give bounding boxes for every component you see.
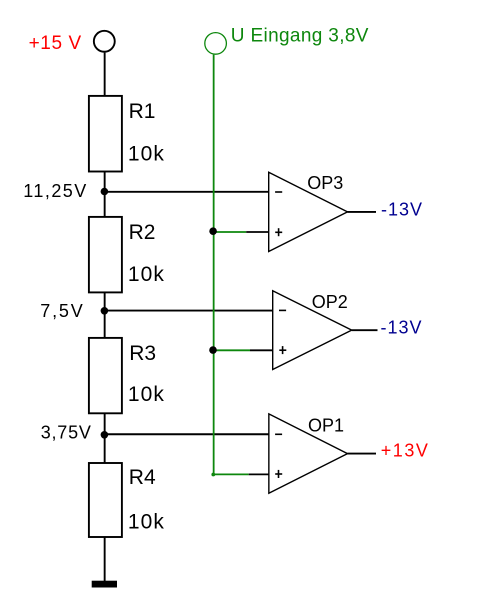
output wire OP2 [352,329,378,331]
op-amp OP3 [269,172,348,251]
wire R3 to R4 [104,413,106,463]
svg-text:7,5V: 7,5V [40,301,84,321]
value label 10k of R4 [128,511,165,534]
OP1 inverting input mark [275,433,282,435]
svg-text:-13V: -13V [381,318,423,338]
svg-text:OP1: OP1 [308,415,344,435]
op-amp OP2 [273,291,352,370]
designator label R4 [129,466,156,489]
svg-text:11,25V: 11,25V [23,181,87,201]
wire node 3,75V to OP1 inverting input [104,433,268,435]
pin stub OP1 noninverting input [249,473,269,475]
wire R2 to R3 [104,292,106,338]
junction node at OP3 noninverting input [209,227,217,235]
OP3 noninverting input mark [275,228,282,236]
label node 3,75V [41,422,92,442]
svg-text:R4: R4 [129,466,156,489]
wire input net to OP2 noninverting input [213,349,250,351]
value label 10k of R1 [128,143,165,166]
value label 10k of R3 [128,383,165,406]
OP2 inverting input mark [279,309,286,311]
OP2 noninverting input mark [279,346,286,354]
wire from +15V terminal to R1 [104,53,106,96]
wire node 11,25V to OP3 inverting input [104,191,268,193]
ground [92,581,117,588]
designator label R3 [129,342,156,365]
output wire OP3 [348,211,377,213]
value label 10k of R2 [128,263,165,286]
wire input net vertical [213,55,215,475]
label node 11,25V [23,181,87,201]
label +13V output OP1 [381,441,430,461]
resistor R4 [89,463,122,537]
junction node at OP2 noninverting input [209,346,217,354]
label -13V output OP2 [381,318,423,338]
terminal U Eingang [205,33,227,55]
resistor R2 [89,217,122,293]
wire R4 to ground [104,537,106,582]
svg-text:R1: R1 [129,100,156,123]
svg-text:10k: 10k [128,511,165,534]
svg-text:OP3: OP3 [307,173,343,193]
wire input net elbow to OP1 noninverting input [211,473,248,477]
resistor R3 [89,338,122,413]
junction node 3,75V [101,431,109,439]
OP3 inverting input mark [275,191,282,193]
pin stub OP3 noninverting input [246,231,269,233]
designator label R2 [129,221,156,244]
svg-text:10k: 10k [128,143,165,166]
label -13V output OP3 [381,199,423,219]
op-amp OP1 [269,414,348,493]
label +15 V [29,33,82,54]
designator label OP3 [307,173,343,193]
label node 7,5V [40,301,84,321]
svg-text:10k: 10k [128,263,165,286]
svg-text:R3: R3 [129,342,156,365]
svg-text:OP2: OP2 [312,292,348,312]
wire input net to OP3 noninverting input [213,231,246,233]
pin stub OP2 noninverting input [250,349,273,351]
svg-text:U Eingang 3,8V: U Eingang 3,8V [231,25,369,46]
junction node 7,5V [101,307,109,315]
label U Eingang 3,8V [231,25,369,46]
output wire OP1 [348,453,377,455]
svg-text:3,75V: 3,75V [41,422,92,442]
svg-text:R2: R2 [129,221,156,244]
terminal +15V [94,31,115,52]
svg-text:-13V: -13V [381,199,423,219]
designator label OP1 [308,415,344,435]
wire R1 to R2 [104,172,106,218]
designator label OP2 [312,292,348,312]
svg-text:+15 V: +15 V [29,33,82,54]
designator label R1 [129,100,156,123]
resistor R1 [89,96,122,172]
svg-text:+13V: +13V [381,441,430,461]
wire node 7,5V to OP2 inverting input [104,310,272,312]
svg-text:10k: 10k [128,383,165,406]
junction node 11,25V [101,188,109,196]
OP1 noninverting input mark [275,470,282,478]
